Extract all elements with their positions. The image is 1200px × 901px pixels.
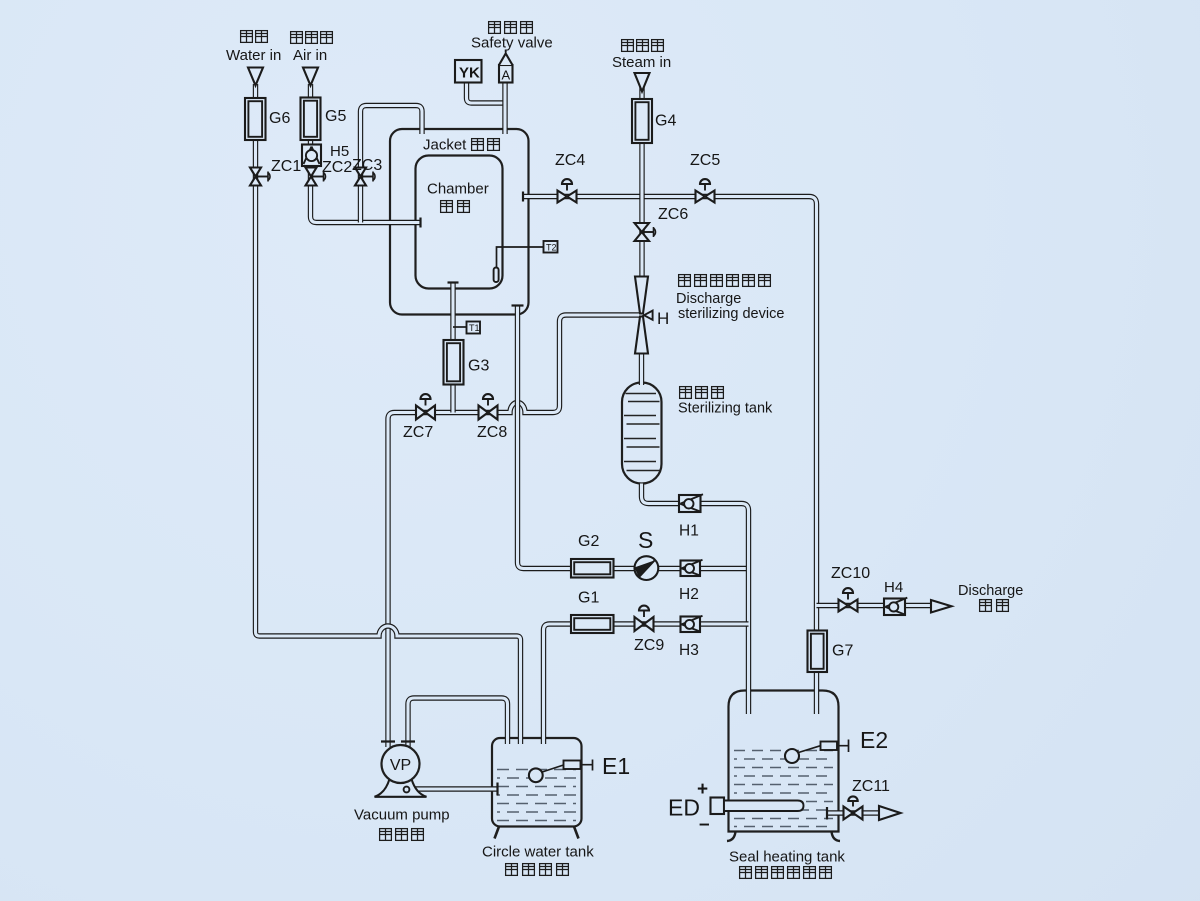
ejector lower cone bbox=[635, 317, 648, 354]
wire: ZC8 line to ejector + vacuum pump suction line (ZC7-ZC8 header) bbox=[388, 315, 641, 747]
wire: ZC3 branch to jacket top bbox=[361, 106, 423, 223]
svg-text:Discharge: Discharge bbox=[958, 583, 1023, 599]
wire: steam inlet through G4, cross, ZC6 to ejector bbox=[639, 84, 644, 277]
funnel water inlet bbox=[248, 68, 263, 86]
seal heating tank body bbox=[729, 691, 839, 832]
svg-text:H: H bbox=[657, 309, 669, 328]
ball check valve H5 bbox=[302, 145, 321, 167]
wire: water inlet line from funnel through G6 and ZC1 to circle tank bbox=[256, 84, 521, 744]
rotameter G4 bbox=[632, 99, 652, 143]
svg-text:ZC11: ZC11 bbox=[852, 778, 890, 795]
svg-text:T2: T2 bbox=[546, 242, 557, 252]
svg-text:H1: H1 bbox=[679, 523, 699, 540]
rotameter G7 bbox=[808, 631, 828, 673]
connection bar: pump outlet into tank bbox=[496, 783, 498, 796]
check valve H1 bbox=[679, 494, 703, 512]
sensor box T1 bbox=[467, 322, 481, 334]
drain open arrow (ZC11 line) bbox=[879, 806, 901, 820]
valve ZC7 bbox=[416, 394, 435, 419]
rotameter G5 bbox=[301, 98, 321, 141]
seal heating tank feet bbox=[727, 832, 840, 842]
label Chamber 腔体 bbox=[427, 181, 489, 213]
svg-text:ED: ED bbox=[668, 795, 700, 821]
svg-text:H3: H3 bbox=[679, 642, 699, 659]
svg-text:T1: T1 bbox=[469, 323, 480, 333]
valve ZC10 bbox=[839, 588, 858, 611]
wire: ejector outlet into sterilizing tank bbox=[639, 353, 644, 385]
label Discharge sterilizing device bbox=[676, 291, 784, 322]
svg-text:Circle water tank: Circle water tank bbox=[482, 844, 594, 861]
valve ZC9 bbox=[635, 606, 654, 631]
svg-text:Steam in: Steam in bbox=[612, 54, 671, 71]
wire: jacket drain to G2 line (through S to seal tank) bbox=[518, 306, 749, 569]
rotameter G1 bbox=[571, 615, 614, 633]
svg-text:E2: E2 bbox=[860, 727, 888, 753]
electric heater ED bbox=[711, 798, 804, 815]
svg-text:ZC9: ZC9 bbox=[634, 637, 664, 654]
svg-text:G3: G3 bbox=[468, 358, 489, 375]
svg-text:Safety valve: Safety valve bbox=[471, 35, 553, 52]
controller box YK bbox=[455, 60, 482, 83]
label 进水 bbox=[241, 31, 268, 43]
svg-text:Discharge: Discharge bbox=[676, 291, 741, 307]
sterilizing tank level lines bbox=[624, 394, 660, 471]
wire: chamber drain through G3 to header bbox=[450, 283, 455, 413]
circle water tank feet bbox=[495, 827, 579, 839]
funnel steam inlet bbox=[635, 73, 650, 92]
svg-text:ZC8: ZC8 bbox=[477, 424, 507, 441]
label Seal heating tank 密封加热水箱 bbox=[729, 849, 845, 879]
label 灭活罐 bbox=[680, 387, 724, 399]
chamber vessel bbox=[416, 156, 503, 289]
svg-text:G7: G7 bbox=[832, 643, 853, 660]
svg-text:ZC1: ZC1 bbox=[271, 158, 301, 175]
svg-text:ZC7: ZC7 bbox=[403, 424, 433, 441]
rotameter G6 bbox=[245, 98, 266, 140]
wire: ZC10 discharge branch bbox=[817, 603, 932, 608]
svg-text:+: + bbox=[697, 779, 708, 800]
valve ZC6 bbox=[635, 223, 656, 241]
svg-text:Water in: Water in bbox=[226, 47, 281, 64]
discharge open arrow (ZC10 line) bbox=[931, 600, 952, 613]
valve ZC5 bbox=[696, 179, 715, 202]
svg-text:Air in: Air in bbox=[293, 47, 327, 64]
svg-text:Chamber: Chamber bbox=[427, 181, 489, 198]
wire: sterilizing tank outlet through H1 down to seal tank bbox=[642, 484, 749, 715]
sensor box T2 bbox=[544, 241, 558, 253]
check valve H2 bbox=[681, 560, 703, 576]
svg-text:ZC2: ZC2 bbox=[322, 159, 352, 176]
label Vacuum pump 真空泵 bbox=[354, 807, 450, 841]
svg-text:G5: G5 bbox=[325, 108, 346, 125]
svg-text:A: A bbox=[502, 68, 511, 83]
connection bar: jacket bottom drain stub bbox=[512, 304, 524, 306]
valve ZC8 bbox=[479, 394, 498, 419]
seal heating tank water level dashes bbox=[734, 751, 833, 827]
connection bar: chamber air inlet stub bbox=[419, 218, 421, 228]
svg-text:ZC6: ZC6 bbox=[658, 206, 688, 223]
svg-text:YK: YK bbox=[459, 65, 480, 82]
wire: vacuum pump outlet to circle tank bbox=[407, 786, 497, 791]
label 进蒸汽 bbox=[622, 40, 664, 52]
ejector upper cone bbox=[635, 277, 648, 314]
svg-text:ZC3: ZC3 bbox=[352, 157, 382, 174]
check valve H3 bbox=[681, 616, 703, 632]
label Circle water tank 循环水箱 bbox=[482, 844, 594, 876]
svg-text:Jacket: Jacket bbox=[423, 137, 467, 154]
valve ZC3 bbox=[355, 168, 375, 186]
wire: YK pressure controller line bbox=[467, 83, 506, 104]
wire: air inlet through G5, H5, ZC2 into chamber bbox=[311, 84, 422, 223]
sterilizing tank vessel bbox=[622, 383, 662, 484]
connection bar: jacket right stub bbox=[522, 192, 524, 202]
svg-text:G2: G2 bbox=[578, 533, 599, 550]
svg-text:G6: G6 bbox=[269, 110, 290, 127]
check valve H4 bbox=[884, 598, 907, 615]
safety valve symbol A bbox=[499, 50, 513, 83]
circle water tank body bbox=[492, 738, 582, 827]
valve ZC1 bbox=[250, 168, 270, 186]
rotameter G2 bbox=[571, 559, 614, 578]
float switch E2 bbox=[785, 740, 849, 764]
svg-text:Sterilizing tank: Sterilizing tank bbox=[678, 401, 773, 417]
svg-text:Vacuum pump: Vacuum pump bbox=[354, 807, 450, 824]
wire: G1 line with ZC9 and H3 bbox=[544, 624, 749, 744]
circle water tank water level dashes bbox=[497, 770, 576, 821]
label Jacket 夹套 bbox=[423, 137, 499, 154]
svg-text:H5: H5 bbox=[330, 143, 349, 160]
svg-text:H2: H2 bbox=[679, 586, 699, 603]
valve ZC2 bbox=[306, 168, 326, 186]
jacket vessel bbox=[390, 129, 529, 315]
svg-text:ZC10: ZC10 bbox=[831, 565, 870, 582]
wire: safety valve line into jacket top bbox=[502, 83, 507, 135]
steam trap S bbox=[634, 556, 658, 580]
wire: main steam header ZC4-ZC5 to right column, G7, seal tank bbox=[523, 197, 817, 715]
svg-text:Seal heating tank: Seal heating tank bbox=[729, 849, 845, 866]
svg-text:–: – bbox=[699, 814, 710, 835]
wire: ZC11 drain from seal tank bbox=[827, 810, 879, 815]
label 安全阀 bbox=[489, 22, 533, 34]
svg-text:S: S bbox=[638, 527, 653, 553]
label 进空气 bbox=[291, 32, 333, 44]
wire: T2 sensor line with probe in chamber bbox=[494, 247, 544, 282]
connection bar: seal tank drain stub bbox=[826, 807, 828, 820]
funnel air inlet bbox=[303, 68, 318, 86]
svg-text:G4: G4 bbox=[655, 113, 676, 130]
valve ZC11 bbox=[844, 796, 863, 819]
label Discharge 排放 bbox=[958, 583, 1023, 611]
float switch E1 bbox=[529, 760, 593, 783]
svg-text:VP: VP bbox=[390, 757, 411, 774]
wire: T1 sensor branch line bbox=[453, 326, 467, 328]
svg-text:sterilizing device: sterilizing device bbox=[678, 306, 784, 322]
svg-text:ZC4: ZC4 bbox=[555, 152, 585, 169]
wire: vacuum pump discharge to circle tank top bbox=[408, 698, 508, 747]
valve ZC4 bbox=[558, 179, 577, 202]
vacuum pump VP bbox=[375, 742, 427, 797]
label ED with polarity bbox=[668, 779, 710, 835]
svg-text:E1: E1 bbox=[602, 753, 630, 779]
ejector flow arrow + node H bbox=[644, 311, 653, 320]
svg-text:ZC5: ZC5 bbox=[690, 152, 720, 169]
connection bar: chamber bottom drain stub bbox=[448, 281, 459, 283]
label 尾气灭活装置 bbox=[679, 275, 771, 287]
rotameter G3 bbox=[444, 340, 464, 385]
svg-text:G1: G1 bbox=[578, 590, 599, 607]
svg-text:H4: H4 bbox=[884, 579, 903, 596]
